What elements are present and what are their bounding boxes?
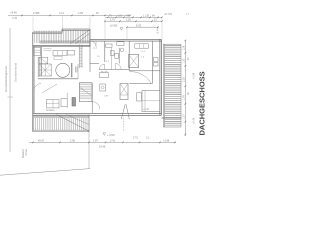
svg-text:Dachüberstand: Dachüberstand: [14, 63, 18, 82]
extension line x90: [89, 17, 91, 30]
left exterior wall: [33, 32, 34, 132]
dashed drop line: [123, 115, 125, 132]
interior wall x78: [77, 64, 79, 79]
rafter band rungs: [165, 45, 181, 125]
interior wall y63 hallway top: [90, 63, 99, 65]
bottom terrace band edges: [33, 115, 89, 132]
bottom band diagonal 1: [57, 115, 90, 132]
svg-text:2.89: 2.89: [78, 11, 84, 15]
svg-text:1.77: 1.77: [183, 114, 186, 119]
terrace stair diagonal: [70, 30, 90, 44]
wc room fixtures top-right: [154, 58, 159, 62]
svg-text:+2.46: +2.46: [192, 72, 195, 79]
property boundary left: [9, 28, 11, 152]
extension line x162: [161, 19, 163, 40]
terrace band bottom wall: [33, 45, 90, 46]
rafter band right edge: [180, 44, 182, 127]
door arc bath 1: [99, 64, 104, 69]
extension line x127: [126, 28, 128, 39]
svg-text:8.35: 8.35: [136, 23, 142, 27]
svg-text:+ 0.00: + 0.00: [107, 133, 115, 137]
property boundary bottom slant: [0, 169, 90, 176]
svg-text:2.96: 2.96: [70, 139, 75, 142]
wardrobe row top-right: [135, 44, 149, 48]
door swing bottom-left room: [42, 84, 57, 93]
hall door arc 1: [91, 41, 97, 47]
stairwell walls: [79, 83, 92, 102]
wash basin: [106, 44, 112, 47]
nightstand: [137, 93, 142, 101]
small circle fixture: [120, 48, 124, 52]
terrace edge vertical line: [88, 115, 90, 170]
radiator marks: [76, 67, 78, 73]
boundary tick: [8, 96, 14, 98]
shaft X-box 2: [129, 55, 139, 68]
svg-text:+8.725: +8.725: [164, 12, 173, 16]
svg-text:1.135: 1.135: [143, 14, 150, 17]
bottom dimension line: [29, 141, 176, 143]
svg-text:Grundstücksgrenze: Grundstücksgrenze: [4, 66, 8, 92]
svg-text:+1.96: +1.96: [163, 140, 170, 143]
interior wall x41: [40, 47, 42, 77]
interior wall x152: [151, 41, 153, 83]
svg-text:19.46: 19.46: [99, 146, 106, 149]
svg-text:1.76: 1.76: [110, 18, 115, 21]
top exterior wall (right part): [90, 39, 161, 41]
interior wall x119: [118, 48, 120, 64]
bed right room: [142, 91, 160, 112]
bottom band diagonal 2: [66, 115, 89, 125]
bottom terrace band dense strip: [34, 115, 89, 118]
terrace band hatch upper: [35, 31, 89, 43]
bottom exterior wall: [33, 113, 162, 115]
svg-text:4.21: 4.21: [59, 11, 65, 15]
kitchenette block 2: [61, 99, 67, 107]
extension line x62: [62, 17, 64, 33]
shelf near sauna: [44, 49, 52, 51]
terrace band hatch lower dense: [40, 40, 89, 43]
right exterior wall: [160, 39, 162, 115]
svg-text:Bestand: Bestand: [22, 149, 25, 158]
dimension chain top-right row3: [127, 26, 158, 28]
svg-text:17.5: 17.5: [133, 136, 138, 139]
stair run line: [80, 88, 92, 96]
extension line x105: [104, 19, 106, 40]
wall x67: [66, 93, 68, 108]
stair treads: [80, 84, 92, 98]
interior wall y69.5 bath bottom: [99, 69, 129, 71]
round element (circle): [56, 63, 70, 77]
cupboard row top-left room: [53, 51, 67, 56]
interior wall y83.5 right: [129, 83, 152, 85]
svg-text:2.465: 2.465: [33, 11, 40, 15]
small table below cupboard: [54, 57, 62, 60]
strong line across band: [162, 117, 182, 119]
svg-text:+2.46: +2.46: [192, 117, 195, 124]
svg-text:2.26: 2.26: [126, 18, 131, 21]
svg-text:2.41: 2.41: [110, 139, 115, 142]
svg-text:1.78: 1.78: [183, 95, 186, 100]
large door arc right room: [129, 72, 151, 84]
WC box small: [39, 57, 48, 64]
kitchenette block 1: [47, 100, 60, 108]
svg-text:1.87: 1.87: [93, 139, 98, 142]
fixtures beside stair: [100, 84, 106, 91]
bath shower box: [117, 42, 124, 46]
svg-text:Terrain: Terrain: [25, 148, 28, 156]
dormer spike: [121, 104, 129, 119]
top terrace band outline: [33, 29, 90, 47]
door arc from left wall: [34, 84, 41, 91]
svg-text:1.01: 1.01: [118, 14, 123, 17]
rafter band left edge: [163, 44, 164, 127]
svg-text:+2.46: +2.46: [143, 109, 150, 111]
interior wall x111.5: [111, 48, 113, 70]
dimension chain top-right row2: [105, 20, 162, 22]
shaft X-box 1: [120, 84, 128, 100]
svg-text:±2.465: ±2.465: [110, 25, 118, 28]
svg-text:2.02: 2.02: [183, 77, 186, 82]
sauna hatched block: [34, 48, 41, 56]
svg-text:3.46: 3.46: [12, 16, 18, 20]
radiator ladder left of hall: [79, 45, 82, 69]
bottom terrace band hatch: [34, 118, 87, 130]
door arc bath 2: [115, 64, 121, 70]
interior wall y78.8: [38, 78, 78, 80]
svg-text:DACHGESCHOSS: DACHGESCHOSS: [198, 71, 207, 135]
svg-text:1.26: 1.26: [183, 45, 186, 50]
svg-text:+2.46: +2.46: [157, 28, 160, 35]
interior wall x90 hall left: [89, 41, 91, 72]
dining table hall: [100, 73, 109, 78]
dimension chain top-right row1: [105, 16, 162, 18]
bath fixtures WC pair: [111, 51, 115, 56]
svg-text:+9.46: +9.46: [10, 11, 17, 15]
interior wall x38: [37, 57, 39, 77]
dimension chain top-left: [8, 14, 130, 16]
svg-text:Terrasse: Terrasse: [46, 109, 56, 112]
interior wall x72: [71, 63, 73, 77]
extension line x33: [32, 17, 34, 32]
wall below stair x92.2: [91, 83, 93, 113]
svg-text:1.32: 1.32: [183, 58, 186, 63]
door arc below stair: [92, 102, 100, 110]
interior wall x129: [128, 41, 130, 71]
interior wall y70.8 right room top: [129, 70, 160, 72]
chimney block: [72, 98, 76, 107]
rafter band top and bottom: [163, 44, 181, 127]
second cupboard: [67, 50, 74, 55]
svg-text:2.1: 2.1: [146, 136, 150, 139]
vertical dimension line right: [184, 40, 186, 136]
shower cross-hatched: [39, 64, 51, 76]
svg-text:45.67: 45.67: [38, 139, 45, 142]
interior wall x105: [104, 41, 106, 62]
